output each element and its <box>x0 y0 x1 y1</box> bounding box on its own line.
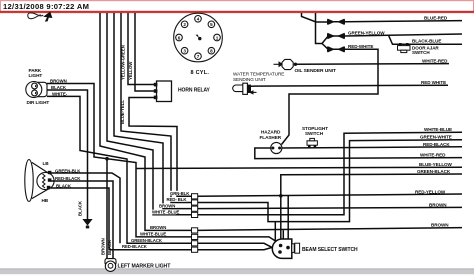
svg-text:BROWN: BROWN <box>101 238 106 255</box>
wire bundle line 4 w2 <box>121 13 192 203</box>
svg-text:BLACK-BLUE: BLACK-BLUE <box>412 39 441 44</box>
svg-text:WHITE-RED: WHITE-RED <box>420 153 446 158</box>
wire GREEN-BLACK <box>281 174 462 196</box>
wire park WHITE w7 <box>47 96 192 243</box>
svg-text:BLUE-YELLOW: BLUE-YELLOW <box>419 162 453 167</box>
svg-text:BROWN: BROWN <box>159 203 175 208</box>
svg-text:LB: LB <box>43 161 50 166</box>
wire bundle line 3 w3 <box>114 13 192 209</box>
wire bundle line 2 w4 <box>107 13 192 215</box>
wire vertical into switch dot1 <box>280 196 282 246</box>
wire sq4 to WHITE-BLUE <box>198 132 462 215</box>
wire BLUE-RED from bar <box>302 13 328 22</box>
svg-text:SWITCH: SWITCH <box>412 50 430 55</box>
svg-text:YELLOW: YELLOW <box>128 61 133 80</box>
svg-text:DIR LIGHT: DIR LIGHT <box>27 100 50 105</box>
svg-text:GREEN-WHITE: GREEN-WHITE <box>420 135 452 140</box>
svg-text:RED-BLACK: RED-BLACK <box>423 142 450 147</box>
left marker light <box>105 259 116 272</box>
svg-text:SENDING UNIT: SENDING UNIT <box>233 77 266 82</box>
svg-text:FLASHER: FLASHER <box>260 135 282 140</box>
svg-text:LEFT MARKER LIGHT: LEFT MARKER LIGHT <box>118 264 172 270</box>
door ajar switch <box>398 43 411 53</box>
svg-text:BROWN: BROWN <box>429 202 447 207</box>
svg-text:8 CYL.: 8 CYL. <box>191 70 210 76</box>
wire BLUE-RED to edge <box>345 21 462 22</box>
connector labels upper <box>122 191 191 249</box>
svg-text:BLUE-RED: BLUE-RED <box>424 16 448 21</box>
wire BROWN 1 <box>198 207 462 208</box>
svg-text:RED-BLACK: RED-BLACK <box>122 244 148 249</box>
svg-text:BLACK: BLACK <box>107 239 112 255</box>
wire WHITE-RED from flasher left <box>255 148 462 159</box>
svg-text:GREEN-YELLOW: GREEN-YELLOW <box>348 30 385 35</box>
svg-text:YELLOW-GREEN: YELLOW-GREEN <box>121 45 126 80</box>
wire BROWN 2 <box>198 228 462 231</box>
title bar <box>0 0 474 13</box>
wire bundle line 6 YELLOW <box>135 13 154 91</box>
wire vertical into switch dot2 from RED-YELLOW <box>287 195 289 247</box>
horn relay U1 <box>154 81 172 102</box>
wire RED-YELLOW <box>198 194 462 196</box>
distributor cap 8 CYL <box>174 13 223 62</box>
wire BLUE-YELLOW branch <box>136 167 462 168</box>
svg-text:LIGHT: LIGHT <box>29 73 43 78</box>
wire park BROWN w6 <box>47 84 192 237</box>
svg-text:RED WHITE: RED WHITE <box>421 80 446 85</box>
cursor icon <box>28 12 53 22</box>
svg-text:RED-YELLOW: RED-YELLOW <box>415 190 446 195</box>
connector A <box>327 19 345 25</box>
wire GREEN-YELLOW to edge <box>345 34 462 36</box>
svg-text:RED- BLK: RED- BLK <box>167 197 188 202</box>
svg-text:WHITE -BLUE: WHITE -BLUE <box>152 210 179 215</box>
wire sq8 to beam switch <box>198 246 279 250</box>
svg-text:GRN-BLK: GRN-BLK <box>170 191 190 196</box>
svg-text:WHITE-BLUE: WHITE-BLUE <box>140 231 166 236</box>
wire RED WHITE from water temp unit <box>251 85 448 86</box>
connector C <box>327 46 345 52</box>
wire RED-BLACK from flasher right <box>280 147 462 148</box>
wire WHITE-RED from oil sender <box>295 63 449 66</box>
wire vertical into switch from jog line <box>274 222 276 242</box>
connector B <box>327 33 345 39</box>
svg-text:BEAM SELECT SWITCH: BEAM SELECT SWITCH <box>302 247 358 253</box>
wye split <box>322 36 328 49</box>
beam select switch <box>272 239 299 258</box>
svg-text:OIL SENDER UNIT: OIL SENDER UNIT <box>295 68 336 74</box>
svg-text:WATER TEMPERATURE: WATER TEMPERATURE <box>233 72 284 77</box>
wire headlight GREEN-BLK to sq7 <box>51 173 120 243</box>
wire park BLACK to ground <box>47 90 88 219</box>
svg-text:SWITCH: SWITCH <box>305 131 324 136</box>
oil sender unit <box>274 59 298 69</box>
svg-text:RED-WHITE: RED-WHITE <box>348 44 373 49</box>
wire bundle line 5 YELLOW-GREEN <box>128 13 154 85</box>
svg-text:BLACK: BLACK <box>78 200 83 216</box>
junction dot marker brown <box>105 157 109 161</box>
svg-text:HAZARD: HAZARD <box>261 130 281 135</box>
svg-text:BROWN: BROWN <box>150 225 166 230</box>
svg-text:GREEN-BLACK: GREEN-BLACK <box>417 169 451 174</box>
svg-text:12/31/2008 9:07:22 AM: 12/31/2008 9:07:22 AM <box>3 2 89 11</box>
svg-text:HB: HB <box>42 198 49 203</box>
svg-text:WHITE-RED: WHITE-RED <box>422 59 448 64</box>
wire RED-WHITE path down to flasher <box>282 49 379 144</box>
svg-text:HORN RELAY: HORN RELAY <box>178 88 211 94</box>
distributor rotor mark <box>198 37 201 40</box>
svg-text:GREEN-BLACK: GREEN-BLACK <box>131 238 163 243</box>
bottom grey bar <box>0 268 474 274</box>
wire marker BROWN <box>106 160 108 259</box>
wire GREEN-YELLOW / RED-WHITE feed <box>316 13 323 44</box>
svg-text:BLUE-YELL: BLUE-YELL <box>120 100 125 124</box>
wire bundle line 1 w5 <box>100 13 192 230</box>
wire sq7 to beam switch <box>198 243 281 252</box>
wire headlight BLACK to sq8 <box>51 188 192 250</box>
wire headlight RED-BLACK to marker light <box>51 181 113 259</box>
wire BLACK-BLUE branch <box>389 35 463 44</box>
svg-text:BROWN: BROWN <box>431 222 449 227</box>
wire sq2 jog to GREEN-WHITE <box>198 140 462 222</box>
ground <box>82 219 92 228</box>
wire sq6 to beam switch <box>198 237 281 244</box>
wire vertical into switch from brown2 <box>282 230 284 243</box>
svg-text:WHITE-BLUE: WHITE-BLUE <box>424 127 452 132</box>
wire BLUE-YELL from relay <box>129 98 192 197</box>
